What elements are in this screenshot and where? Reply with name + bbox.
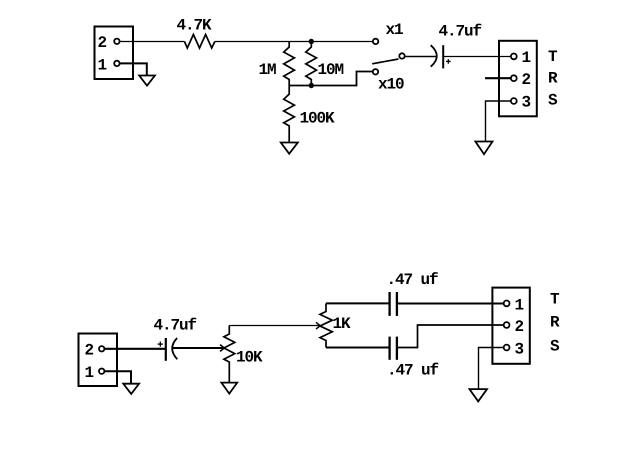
stub wire TRS pin 2 bbox=[485, 77, 511, 79]
wire 10K top to pot 1K wiper bbox=[229, 325, 319, 327]
connector TRS (top output jack) bbox=[499, 41, 537, 117]
wire J1 pin1 to ground bbox=[120, 63, 147, 75]
svg-text:x1: x1 bbox=[386, 21, 404, 39]
svg-text:T: T bbox=[548, 48, 558, 66]
svg-text:4.7uf: 4.7uf bbox=[154, 317, 197, 335]
wire J2 pin2 to C2 4.7uf bbox=[104, 348, 165, 350]
ground (TRS2) bbox=[470, 389, 488, 401]
svg-text:2: 2 bbox=[515, 318, 524, 336]
wire switch common to C 4.7uf bbox=[405, 56, 436, 58]
svg-text:.47 uf: .47 uf bbox=[387, 271, 439, 289]
plus sign (C2) bbox=[158, 342, 163, 347]
ground (J1) bbox=[139, 76, 155, 86]
switch SW1 common pole bbox=[399, 53, 404, 58]
capacitor C4 .47uf (bottom) bbox=[390, 337, 397, 360]
svg-text:10M: 10M bbox=[318, 61, 344, 79]
svg-text:R: R bbox=[550, 314, 560, 332]
wire J1 pin2 to R 4.7K bbox=[120, 41, 185, 43]
switch SW1 contact x10 bbox=[373, 69, 378, 74]
plus sign (C 4.7uf top) bbox=[446, 59, 451, 64]
svg-text:T: T bbox=[550, 290, 560, 308]
resistor R 100K bbox=[284, 86, 295, 143]
wire 1K bottom to C4 bbox=[326, 347, 390, 349]
resistor R 4.7K bbox=[185, 35, 215, 49]
wire J2 pin1 to ground bbox=[104, 371, 131, 383]
potentiometer R 10K bbox=[224, 326, 235, 383]
capacitor C2 4.7uf (bottom, polarized) bbox=[166, 338, 178, 361]
wire node B to switch x10 bbox=[289, 72, 372, 86]
svg-text:4.7K: 4.7K bbox=[177, 17, 213, 35]
connector TRS2 (bottom output jack) bbox=[492, 288, 529, 364]
switch SW1 blade bbox=[372, 59, 398, 64]
svg-text:S: S bbox=[550, 338, 560, 356]
svg-text:4.7uf: 4.7uf bbox=[439, 23, 482, 41]
junction dot node B (bottom of 10M) bbox=[309, 83, 314, 88]
wire TRS pin 3 to ground bbox=[486, 101, 511, 141]
junction dot node A (top of 10M) bbox=[309, 39, 314, 44]
ground (TRS top) bbox=[475, 142, 492, 155]
ground (below 10K) bbox=[221, 383, 237, 394]
connector J1 (top input jack) bbox=[95, 27, 134, 80]
svg-text:1: 1 bbox=[515, 296, 524, 314]
resistor R 1M bbox=[284, 42, 295, 86]
svg-text:1K: 1K bbox=[333, 315, 352, 333]
svg-text:3: 3 bbox=[515, 341, 524, 359]
svg-text:S: S bbox=[548, 91, 558, 109]
svg-text:.47 uf: .47 uf bbox=[387, 362, 439, 380]
wire C3 to TRS2 pin 1 bbox=[397, 303, 504, 305]
wire TRS2 pin 3 to ground bbox=[479, 348, 504, 389]
svg-text:2: 2 bbox=[522, 71, 531, 89]
svg-text:10K: 10K bbox=[236, 349, 263, 367]
svg-text:x10: x10 bbox=[378, 76, 404, 94]
wire R 4.7K to switch x1 bbox=[215, 41, 373, 43]
svg-text:1: 1 bbox=[98, 56, 107, 74]
wiper arrowhead (1K) bbox=[316, 322, 320, 329]
svg-text:2: 2 bbox=[98, 34, 107, 52]
wire 1K top to C3 bbox=[326, 302, 390, 304]
svg-text:R: R bbox=[548, 70, 558, 88]
resistor R 10M bbox=[306, 42, 317, 86]
wiper arrowhead (10K) bbox=[220, 345, 224, 352]
wire C 4.7uf to TRS pin 1 bbox=[443, 56, 511, 58]
capacitor C 4.7uf (top, polarized) bbox=[431, 45, 444, 68]
svg-text:3: 3 bbox=[522, 94, 531, 112]
svg-text:1M: 1M bbox=[259, 61, 277, 79]
svg-text:1: 1 bbox=[85, 364, 94, 382]
svg-text:1: 1 bbox=[522, 49, 531, 67]
connector J2 (bottom input jack) bbox=[79, 334, 118, 387]
wire C4 to TRS2 pin 2 bbox=[397, 325, 504, 348]
wire C2 to pot 10K wiper (arrow) bbox=[172, 347, 223, 349]
svg-text:2: 2 bbox=[85, 342, 94, 360]
capacitor C3 .47uf (top) bbox=[390, 292, 397, 316]
potentiometer R 1K bbox=[320, 303, 332, 347]
ground (J2) bbox=[123, 384, 139, 394]
ground (below 100K) bbox=[281, 143, 298, 154]
switch SW1 contact x1 bbox=[373, 39, 378, 44]
svg-text:100K: 100K bbox=[300, 110, 336, 128]
